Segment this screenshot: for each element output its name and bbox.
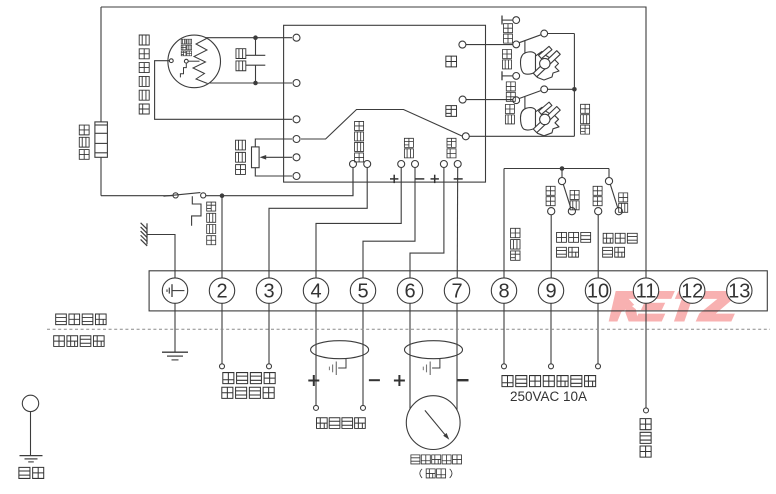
svg-text:7: 7 (451, 281, 462, 303)
svg-text:11: 11 (636, 281, 657, 303)
svg-text:2: 2 (216, 281, 227, 303)
svg-text:10: 10 (587, 281, 609, 303)
svg-text:5: 5 (357, 281, 368, 303)
svg-text:3: 3 (263, 281, 274, 303)
svg-text:9: 9 (545, 281, 556, 303)
svg-text:250VAC 10A: 250VAC 10A (510, 389, 587, 404)
svg-text:12: 12 (681, 281, 703, 303)
svg-text:6: 6 (404, 281, 415, 303)
svg-text:4: 4 (310, 281, 321, 303)
svg-text:13: 13 (728, 281, 750, 303)
svg-text:8: 8 (498, 281, 509, 303)
